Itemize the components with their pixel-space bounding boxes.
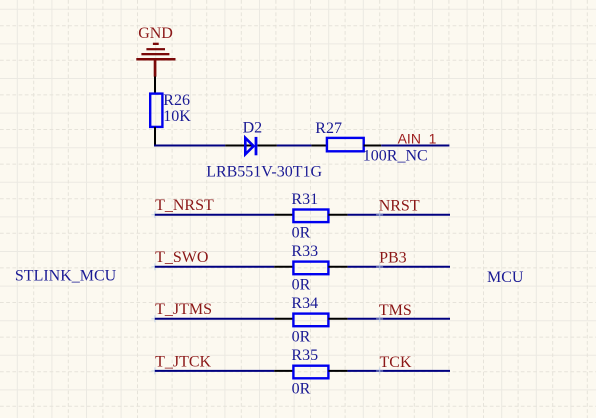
diode D2 LRB551V-30T1G [206, 119, 322, 180]
svg-text:R35: R35 [291, 347, 318, 364]
resistor R26 value 10K [150, 92, 191, 127]
wire: R27 to net AIN_1 [381, 145, 449, 147]
wire: GND to R26 pin 1 [154, 77, 156, 94]
wire: R35 to TCK [348, 370, 450, 372]
svg-text:0R: 0R [292, 277, 311, 294]
wire: T_JTMS to R34 [155, 318, 274, 320]
wire: corner to diode D2 anode [154, 145, 225, 147]
svg-text:PB3: PB3 [379, 250, 407, 267]
svg-text:D2: D2 [243, 119, 263, 136]
svg-text:NRST: NRST [379, 198, 420, 215]
node PB3 anchor [376, 263, 383, 270]
svg-text:LRB551V-30T1G: LRB551V-30T1G [206, 163, 322, 180]
svg-text:GND: GND [138, 25, 173, 42]
wire: R33 to PB3 [348, 266, 450, 268]
resistor R35 value 0R [274, 347, 347, 398]
svg-text:MCU: MCU [487, 269, 524, 286]
wire: R26 pin 2 down to corner [154, 127, 156, 147]
wire: T_JTCK to R35 [155, 370, 274, 372]
svg-text:R26: R26 [163, 92, 190, 109]
svg-text:100R_NC: 100R_NC [363, 147, 428, 164]
node T_NRST anchor [151, 211, 158, 218]
svg-text:R31: R31 [291, 191, 318, 208]
svg-text:T_JTMS: T_JTMS [155, 301, 212, 318]
resistor R27 value 100R_NC [311, 120, 427, 164]
node T_JTMS anchor [151, 315, 158, 322]
svg-text:TMS: TMS [379, 302, 412, 319]
svg-text:R27: R27 [315, 120, 342, 137]
svg-text:TCK: TCK [380, 354, 412, 371]
svg-text:STLINK_MCU: STLINK_MCU [15, 267, 117, 284]
node T_SWO anchor [151, 263, 158, 270]
svg-text:1: 1 [429, 131, 437, 147]
ground GND power port [136, 25, 175, 76]
svg-text:T_SWO: T_SWO [155, 249, 208, 266]
wire: T_SWO to R33 [155, 266, 274, 268]
node TCK anchor [376, 367, 383, 374]
svg-text:0R: 0R [292, 225, 311, 242]
node TMS anchor [376, 315, 383, 322]
resistor R33 value 0R [274, 243, 347, 294]
svg-text:R34: R34 [291, 295, 318, 312]
wire: R34 to TMS [348, 318, 450, 320]
resistor R34 value 0R [274, 295, 347, 346]
svg-text:0R: 0R [292, 381, 311, 398]
wire: T_NRST to R31 [155, 214, 274, 216]
wire: R31 to NRST [348, 214, 450, 216]
svg-text:T_NRST: T_NRST [155, 197, 214, 214]
svg-text:0R: 0R [292, 329, 311, 346]
net label AIN_1 [398, 131, 437, 147]
wire: D2 cathode to R27 [277, 145, 312, 147]
node T_JTCK anchor [151, 367, 158, 374]
svg-text:10K: 10K [163, 108, 191, 125]
resistor R31 value 0R [274, 191, 347, 242]
node NRST anchor [376, 211, 383, 218]
svg-text:AIN: AIN [398, 131, 421, 147]
svg-text:T_JTCK: T_JTCK [155, 353, 211, 370]
svg-text:R33: R33 [291, 243, 318, 260]
